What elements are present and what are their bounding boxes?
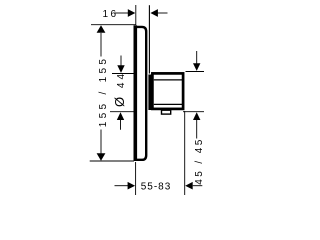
- dim 55-83 left extension line: [135, 162, 137, 195]
- dim 55-83 right extension line: [184, 111, 186, 195]
- dim 155/155 bottom arrow: [97, 130, 106, 161]
- dim 55-83 right arrow: [185, 182, 202, 190]
- svg-text:55-83: 55-83: [141, 181, 172, 192]
- svg-text:16: 16: [102, 9, 118, 20]
- dim 44 bottom arrow: [117, 112, 124, 130]
- dim 45/45 bottom arrow: [193, 112, 200, 138]
- handle top face line: [154, 79, 183, 81]
- dim 45/45 bottom extension line: [183, 111, 204, 113]
- dim 155/155 top extension line: [91, 24, 136, 26]
- handle button tab: [162, 110, 171, 114]
- valve sleeve: [148, 75, 152, 111]
- dim 44 bottom extension line: [110, 111, 134, 113]
- dim 44 top extension line: [112, 73, 134, 75]
- plate outline: [134, 27, 146, 160]
- dim 16 left arrow: [115, 9, 136, 17]
- dim 45/45 top arrow: [193, 51, 200, 71]
- dim 45/45 top extension line: [186, 71, 205, 73]
- dim 44 top arrow: [117, 56, 124, 73]
- dim 155/155 bottom extension line: [90, 160, 134, 162]
- dim 16 right arrow: [150, 9, 167, 17]
- dim 16 extension line right: [148, 5, 150, 73]
- handle bottom face line: [154, 103, 183, 105]
- dim 16 extension line left: [135, 5, 137, 25]
- svg-text:45 / 45: 45 / 45: [194, 137, 205, 184]
- svg-text:Ø 44: Ø 44: [112, 71, 127, 107]
- dim 155/155 top arrow: [97, 25, 106, 56]
- dim 55-83 left arrow: [115, 182, 136, 190]
- plate back bar: [134, 25, 138, 161]
- svg-text:155 / 155: 155 / 155: [98, 56, 109, 127]
- escutcheon plate side view: [134, 25, 147, 161]
- handle body: [152, 73, 183, 109]
